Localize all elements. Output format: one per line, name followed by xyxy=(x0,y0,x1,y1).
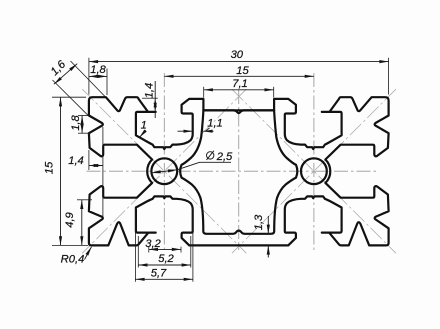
vertical centerline middle xyxy=(238,90,240,250)
svg-text:15: 15 xyxy=(44,161,56,174)
dimension diameter 2,5 xyxy=(151,151,233,175)
dimension 5,7 xyxy=(135,208,193,282)
svg-text:3,2: 3,2 xyxy=(145,238,161,250)
svg-text:5,7: 5,7 xyxy=(151,268,167,280)
dimension 15 top xyxy=(164,65,314,78)
svg-text:2,5: 2,5 xyxy=(216,151,233,163)
dimension 3,2 xyxy=(145,238,181,253)
dimension 1 xyxy=(138,120,147,139)
svg-text:1,4: 1,4 xyxy=(143,83,155,99)
vertical centerline left hole xyxy=(163,73,165,252)
svg-text:1,3: 1,3 xyxy=(253,214,265,230)
diagonal centerline right hole NW-SE xyxy=(232,89,396,253)
svg-text:R0,4: R0,4 xyxy=(61,254,85,266)
dimension 7,1 xyxy=(204,78,274,98)
hole left xyxy=(151,158,177,184)
svg-text:1,8: 1,8 xyxy=(70,114,82,130)
dimension R0,4 xyxy=(61,246,93,266)
svg-text:1,1: 1,1 xyxy=(207,118,223,130)
profile outline left half xyxy=(89,97,239,245)
svg-text:30: 30 xyxy=(231,49,244,61)
dimension 1,6 diagonal xyxy=(49,58,105,116)
svg-text:5,2: 5,2 xyxy=(158,253,174,265)
dimension 1,8 top xyxy=(89,64,107,95)
dimension 30 top xyxy=(89,49,389,94)
svg-text:1,8: 1,8 xyxy=(90,64,106,76)
svg-text:7,1: 7,1 xyxy=(232,78,248,90)
svg-text:1,4: 1,4 xyxy=(68,155,84,167)
central slot shelf top xyxy=(203,110,274,113)
profile outline right half (mirror) xyxy=(239,97,389,245)
diagonal centerline left hole NE-SW xyxy=(82,89,246,253)
svg-text:1: 1 xyxy=(141,120,147,132)
vertical centerline right hole xyxy=(313,73,315,252)
dimension 1,4 top xyxy=(142,81,158,118)
dimension 1,8 left xyxy=(70,114,91,133)
horizontal centerline xyxy=(87,170,378,172)
dimension 15 left xyxy=(44,97,89,245)
diagonal centerline left hole NW-SE xyxy=(82,89,246,253)
svg-text:4,9: 4,9 xyxy=(64,212,76,228)
dimension 4,9 xyxy=(64,200,92,246)
dimension 1,3 xyxy=(253,214,274,258)
dimension 1,4 left xyxy=(68,127,103,217)
svg-text:15: 15 xyxy=(236,65,249,77)
diagonal centerline right hole NE-SW xyxy=(232,89,396,253)
dimension 1,1 xyxy=(178,118,223,133)
hole right xyxy=(301,158,327,184)
dimension 5,2 xyxy=(138,236,191,268)
